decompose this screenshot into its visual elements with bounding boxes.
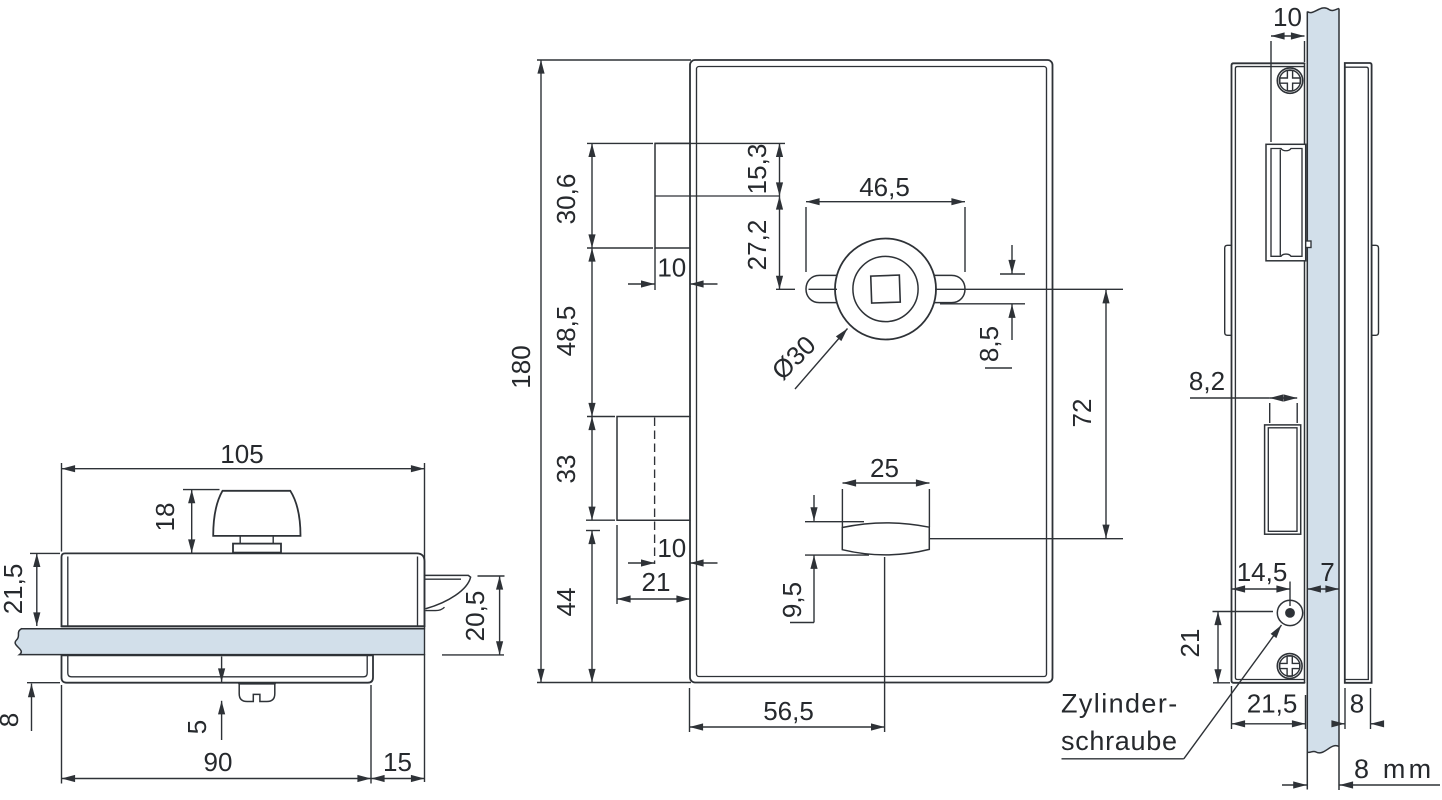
dimension 15 [371,747,425,779]
housing centre line [655,195,780,197]
svg-text:9,5: 9,5 [777,582,807,618]
dimension 48,5 [551,248,615,417]
dimension 8 (cover plate) [1334,688,1382,729]
dimension 33 [551,417,615,521]
svg-text:Zylinder-: Zylinder- [1061,689,1179,719]
svg-text:10: 10 [657,253,686,283]
dimension 21 (latch guide) [617,525,690,604]
svg-text:180: 180 [506,345,536,388]
svg-text:46,5: 46,5 [859,172,910,202]
svg-text:21: 21 [1175,629,1205,658]
svg-text:8: 8 [1350,689,1364,719]
follower left ear [806,275,860,302]
svg-text:33: 33 [551,455,581,484]
strike slot (top) [1266,144,1311,260]
dimension 8 mm (glass thickness) [1282,754,1440,785]
svg-text:21: 21 [642,567,671,597]
svg-text:44: 44 [551,588,581,617]
square spindle hole [871,275,901,303]
svg-text:25: 25 [870,453,899,483]
cylinder screw cutout (middle) [1265,425,1301,534]
svg-text:27,2: 27,2 [742,220,772,271]
dimension 10 (top, housing width) [628,248,718,290]
svg-text:21,5: 21,5 [0,564,28,615]
dimension 21,5 [0,553,60,626]
latch bump on far plate [1372,245,1379,335]
follower right ear [911,275,965,302]
dimension 44 [551,531,600,683]
follower housing box (top left) [655,143,690,248]
svg-text:8,5: 8,5 [974,326,1004,362]
dimension 8,5 [940,245,1025,368]
svg-text:14,5: 14,5 [1237,557,1288,587]
svg-text:schraube: schraube [1061,726,1178,756]
svg-text:18: 18 [150,503,180,532]
svg-text:7: 7 [1320,557,1334,587]
svg-text:8: 8 [0,713,24,727]
svg-text:20,5: 20,5 [460,591,490,642]
dimension 8 [0,683,60,731]
dimension 56,5 [690,557,885,732]
latch hook (right side of body) [425,575,471,610]
dimension 46,5 [806,172,965,272]
screw (top, phillips) [1277,68,1302,93]
glass panel (edge view) [1307,8,1339,790]
dimension 18 [150,490,220,553]
LEFT VIEW [0,439,505,784]
svg-text:30,6: 30,6 [551,174,581,225]
svg-text:8 mm: 8 mm [1354,754,1434,784]
dimension 27,2 [742,196,795,289]
follower centre line to right [935,288,1123,290]
cylinder screw hole [1277,600,1302,625]
RIGHT VIEW [1061,2,1440,790]
svg-text:8,2: 8,2 [1189,366,1225,396]
follower outer circle Ø30 [835,239,936,340]
dimension 30,6 [551,143,653,248]
svg-text:21,5: 21,5 [1247,689,1298,719]
svg-text:15,3: 15,3 [742,144,772,195]
label Zylinderschraube with leader [1061,625,1282,759]
svg-text:48,5: 48,5 [551,306,581,357]
svg-text:10: 10 [1273,2,1302,32]
glass panel (left view, side) [15,629,424,655]
dimension 21,5 [1232,686,1306,729]
knob [213,491,300,553]
label Ø30 with leader [766,329,848,390]
dimension 5 [182,657,222,741]
lock body upper part [62,553,425,626]
mounting tab with notch [239,683,275,702]
lock plate outer outline [690,60,1053,683]
dimension 10 (slot width) [1271,2,1305,142]
svg-text:10: 10 [657,533,686,563]
lower lever (oval) [842,523,929,555]
dimension 7 [1307,557,1339,589]
dimension 90 [62,685,372,784]
screw (bottom, phillips) [1277,654,1302,679]
follower inner circle [853,256,918,321]
dimension 180 [506,60,691,683]
svg-text:15: 15 [383,747,412,777]
lower body (below glass) [62,655,374,682]
dimension 72 [1067,290,1106,538]
cover plate (far side) [1345,63,1372,683]
MIDDLE VIEW [506,60,1123,732]
dimension 20,5 [442,576,505,655]
svg-text:56,5: 56,5 [763,696,814,726]
lock plate inner outline [697,67,1047,677]
dimension 105 [62,439,425,782]
dimension 15,3 [655,143,785,196]
svg-text:72: 72 [1067,399,1097,428]
svg-text:105: 105 [220,439,263,469]
latch bump on near plate [1225,245,1232,335]
dimension 25 [842,453,929,528]
dimension 10 (bottom, latch guide offset) [628,533,718,563]
dimension 21 (screw position) [1175,612,1273,683]
dimension 8,2 [1189,366,1297,423]
svg-text:5: 5 [182,720,212,734]
latch guide box (bottom left) [617,417,690,521]
latch guide dashed centre line [654,418,656,565]
dimension 9,5 [777,495,869,623]
dimension 14,5 [1232,557,1291,606]
svg-text:90: 90 [204,747,233,777]
lock body plate (near side) [1232,63,1305,683]
oval centre line to right [930,538,1124,540]
